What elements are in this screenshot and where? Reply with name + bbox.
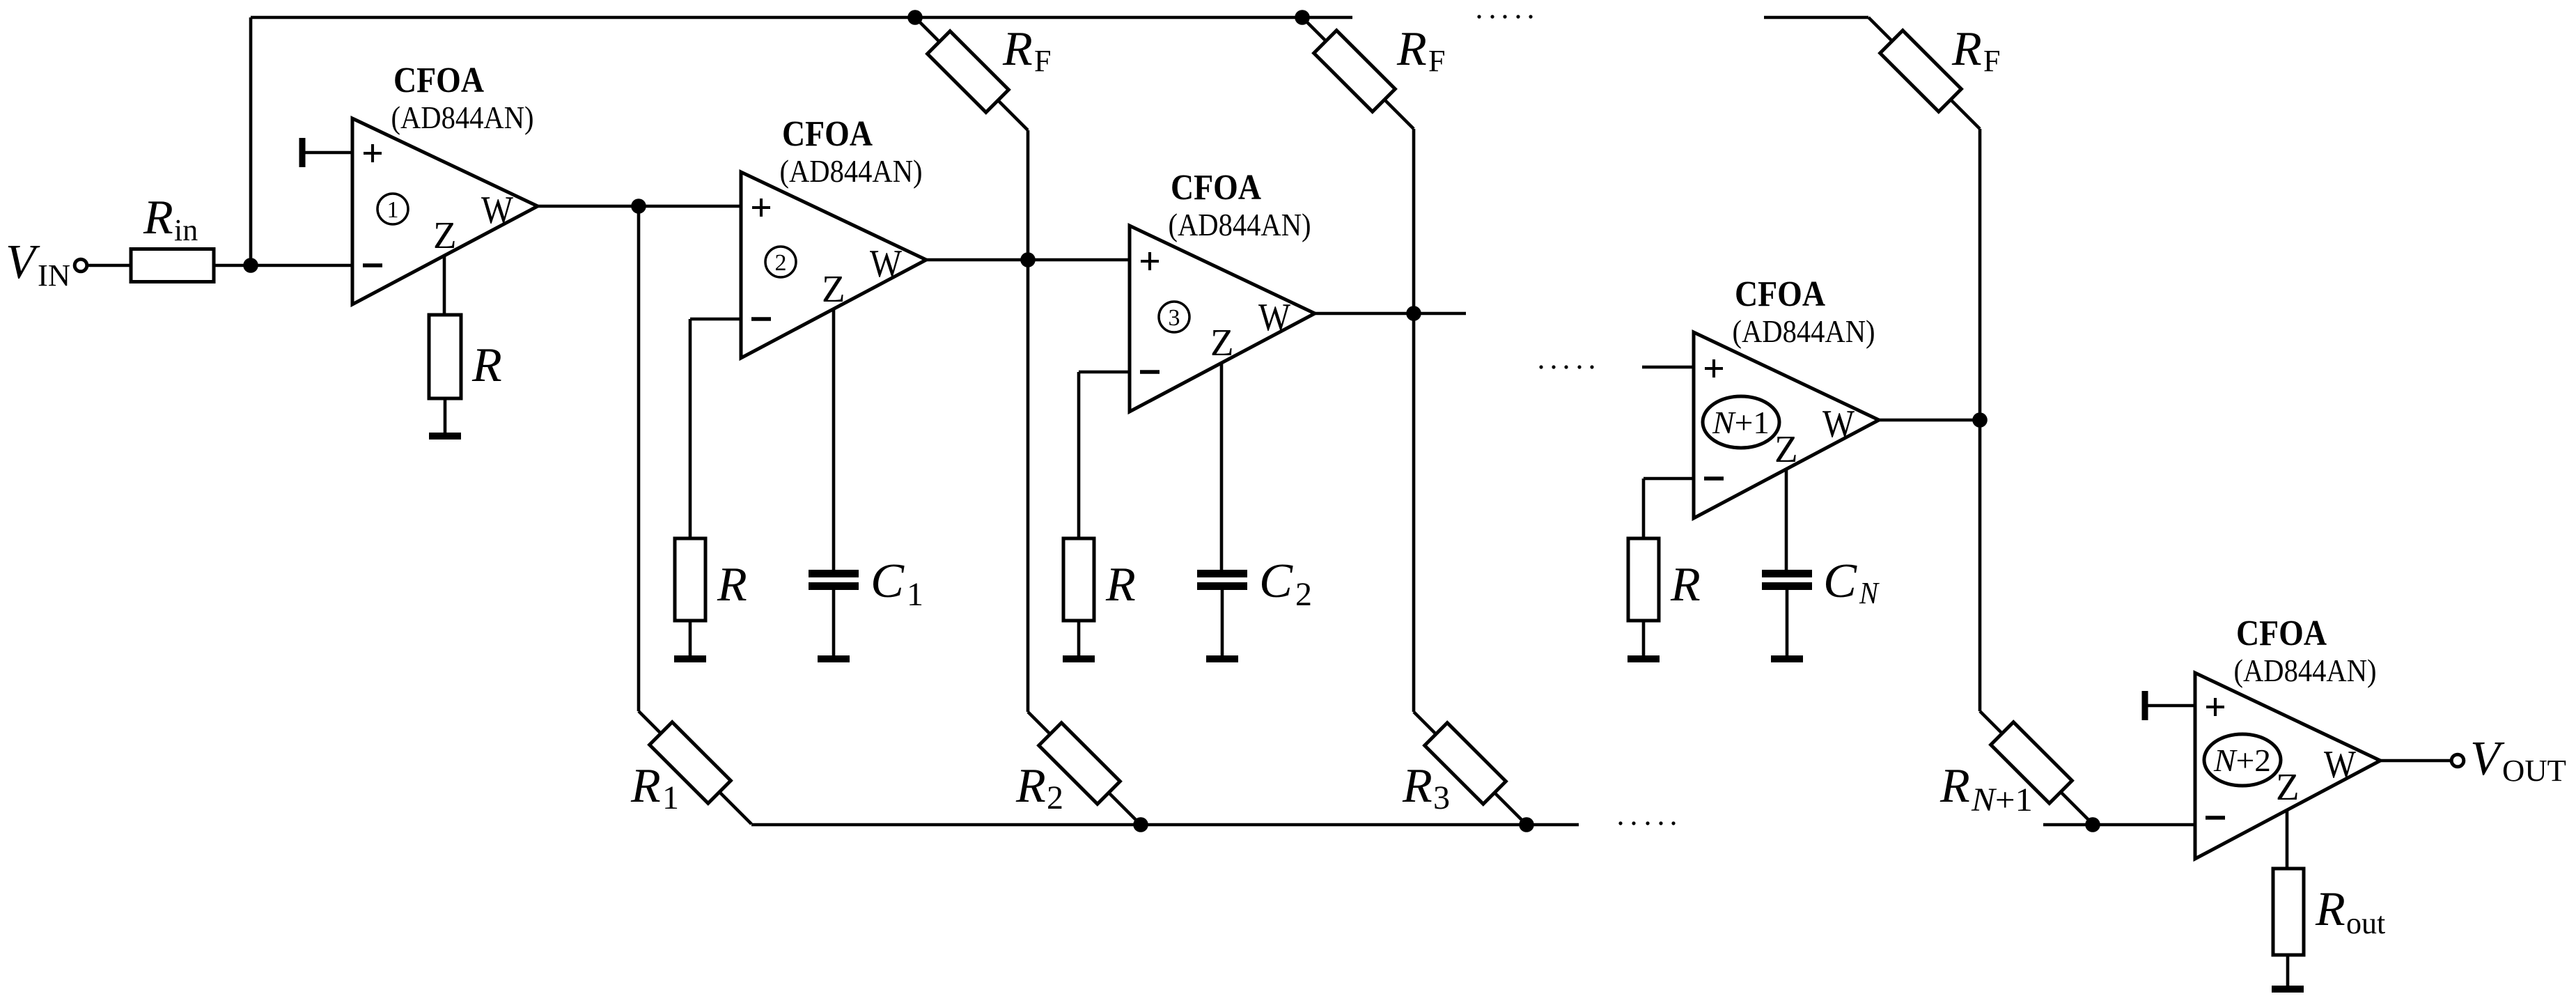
op-amp U1 (CFOA 1) triangle xyxy=(352,118,538,304)
ground of C2 xyxy=(1206,655,1238,662)
wire U2 minus input xyxy=(690,318,741,321)
ground of R U2 xyxy=(674,655,706,662)
resistor R1 (diagonal) xyxy=(650,722,731,804)
circled number 2 inside U2 xyxy=(765,247,796,277)
wire R of U1 to ground xyxy=(444,398,447,433)
resistor RF1 (diagonal) xyxy=(928,31,1009,113)
resistor RF3 (diagonal) xyxy=(1880,31,1962,112)
ground of R U4 xyxy=(1627,655,1660,662)
capacitor CN xyxy=(1762,570,1812,577)
svg-text:Z: Z xyxy=(433,214,457,256)
svg-text:R: R xyxy=(1002,22,1033,76)
resistor Rout xyxy=(2273,869,2304,955)
ellipsis dots on top bus xyxy=(1477,15,1481,18)
wire U3 Z pin down to C2 xyxy=(1220,363,1224,570)
resistor R of U3 xyxy=(1063,538,1094,621)
grounded stub on plus input of U1 (T bar) xyxy=(299,138,306,167)
svg-text:3: 3 xyxy=(1433,779,1450,816)
op-amp U5 (CFOA N+2) triangle xyxy=(2195,673,2380,859)
svg-text:R: R xyxy=(1670,558,1701,612)
svg-text:R: R xyxy=(717,558,747,612)
node A junction at VIN feedback tap xyxy=(243,258,258,273)
ground of CN xyxy=(1771,655,1803,662)
minus input glyph U5 xyxy=(2206,816,2225,820)
svg-text:Z: Z xyxy=(2276,765,2300,808)
minus input glyph U4 xyxy=(1704,476,1724,481)
wire top feedback bus xyxy=(251,16,1352,20)
ground of R U3 xyxy=(1063,655,1095,662)
resistor R of U1 xyxy=(429,315,461,398)
svg-text:W: W xyxy=(1822,403,1855,446)
capacitor C2 xyxy=(1197,570,1247,577)
wire plus stub to U1 xyxy=(305,151,352,155)
resistor RF2 (diagonal) xyxy=(1314,31,1396,112)
wire C2 to ground xyxy=(1221,590,1224,655)
circled number 3 inside U3 xyxy=(1159,302,1189,332)
node junction R3 on bottom bus xyxy=(1519,817,1534,832)
svg-text:CFOA: CFOA xyxy=(782,114,873,154)
svg-text:W: W xyxy=(870,242,902,286)
node E junction at U4 output xyxy=(1972,412,1988,428)
svg-text:3: 3 xyxy=(1169,305,1180,331)
resistor R of U2 xyxy=(675,538,705,621)
circled number 1 inside U1 xyxy=(377,194,408,224)
svg-text:W: W xyxy=(2324,743,2356,786)
wire U3 output node down to R3 xyxy=(1412,313,1416,712)
wire plus stub to U5 xyxy=(2148,704,2195,708)
svg-text:(AD844AN): (AD844AN) xyxy=(1169,207,1311,242)
svg-text:OUT: OUT xyxy=(2502,754,2566,788)
wire diagonal top bus into RF2 xyxy=(1302,17,1414,129)
wire VIN to inverting input of U1 xyxy=(88,264,352,267)
minus input glyph U2 xyxy=(751,317,771,321)
ellipse number N+2 inside U5 xyxy=(2204,734,2281,786)
svg-text:R: R xyxy=(1015,759,1046,813)
wire R of U3 to ground xyxy=(1077,621,1081,655)
plus input glyph U4 xyxy=(1705,367,1723,370)
ellipse number N+1 inside U4 xyxy=(1703,396,1779,448)
ellipsis dots on bottom bus xyxy=(1618,821,1622,825)
svg-text:1: 1 xyxy=(387,197,399,223)
svg-text:W: W xyxy=(481,189,513,232)
node junction RN+1 on bottom bus xyxy=(2085,817,2100,832)
wire node A up to top feedback bus xyxy=(249,17,253,265)
wire bottom summing bus right segment xyxy=(2043,823,2195,827)
capacitor C1 xyxy=(809,570,859,577)
ground of R U1 xyxy=(429,433,461,440)
svg-text:IN: IN xyxy=(38,258,70,293)
wire U5 Z pin down to Rout xyxy=(2286,810,2289,869)
ellipsis dots between U3 and U(N+1) xyxy=(1539,365,1543,368)
svg-text:V: V xyxy=(2470,732,2505,786)
svg-text:N+2: N+2 xyxy=(2213,742,2271,778)
wire U2 Z pin down to C1 xyxy=(832,309,836,570)
svg-text:C: C xyxy=(1823,554,1857,608)
wire diagonal into R3 xyxy=(1414,712,1527,825)
svg-text:Z: Z xyxy=(1774,428,1798,470)
wire diagonal stub into RF3 xyxy=(1868,17,1980,129)
wire RF3 down to U(N+1) output node xyxy=(1978,129,1982,420)
svg-text:R: R xyxy=(1951,22,1982,76)
wire CN to ground xyxy=(1786,590,1789,655)
svg-text:F: F xyxy=(1983,44,2000,78)
wire U1 output down to R1 xyxy=(637,206,641,711)
wire U4 minus input xyxy=(1644,477,1694,481)
node D junction at U3 output xyxy=(1406,306,1421,321)
minus input glyph U1 xyxy=(363,263,382,267)
svg-text:C: C xyxy=(1259,554,1293,608)
svg-text:Z: Z xyxy=(1210,321,1234,364)
wire U3 minus down to R xyxy=(1077,372,1081,538)
wire U3 minus input xyxy=(1079,371,1130,374)
svg-text:CFOA: CFOA xyxy=(393,61,484,100)
grounded stub on plus input of U5 (T bar) xyxy=(2142,691,2148,720)
svg-text:R: R xyxy=(1939,759,1970,813)
node VOUT output terminal (open circle) xyxy=(2451,754,2464,767)
svg-text:Z: Z xyxy=(822,267,845,310)
svg-text:2: 2 xyxy=(775,250,787,276)
op-amp U4 (CFOA N+1) triangle xyxy=(1694,332,1879,518)
wire R of U2 to ground xyxy=(689,621,692,655)
plus input glyph U2 xyxy=(752,206,770,209)
svg-text:in: in xyxy=(174,213,198,247)
wire U3 output W xyxy=(1315,312,1466,316)
resistor Rin xyxy=(131,249,214,282)
svg-text:R: R xyxy=(630,759,661,813)
svg-text:V: V xyxy=(6,235,40,289)
wire U1 output W xyxy=(538,205,741,208)
node junction R2 on bottom bus xyxy=(1133,817,1148,832)
node junction RF1 on top bus xyxy=(907,10,923,25)
wire C1 to ground xyxy=(832,590,836,655)
wire U4 output node down to RN+1 xyxy=(1978,420,1982,711)
svg-text:R: R xyxy=(2315,883,2345,936)
minus input glyph U3 xyxy=(1140,370,1160,374)
ground of C1 xyxy=(818,655,850,662)
resistor RN+1 (diagonal) xyxy=(1991,722,2072,804)
plus input glyph U3 xyxy=(1141,260,1159,263)
wire diagonal into R1 xyxy=(639,711,751,824)
wire diagonal top bus into RF1 xyxy=(915,17,1028,130)
svg-text:1: 1 xyxy=(662,779,679,816)
wire U2 output node down to R2 xyxy=(1027,260,1030,712)
wire U4 output W xyxy=(1879,419,1980,422)
svg-text:R: R xyxy=(471,339,502,392)
wire RF1 down to U2 output node xyxy=(1027,130,1030,260)
svg-text:C: C xyxy=(871,554,905,608)
svg-text:2: 2 xyxy=(1047,779,1063,816)
node VIN input terminal (open circle) xyxy=(75,259,87,272)
svg-text:2: 2 xyxy=(1295,576,1312,613)
op-amp U2 (CFOA 2) triangle xyxy=(741,172,926,358)
svg-text:CFOA: CFOA xyxy=(1735,274,1825,314)
node C junction at U2 output xyxy=(1020,252,1036,267)
svg-text:CFOA: CFOA xyxy=(1171,168,1261,208)
wire U4 Z pin down to CN xyxy=(1785,469,1788,570)
wire U1 Z pin down to R xyxy=(443,256,446,315)
svg-text:F: F xyxy=(1428,44,1445,78)
wire bottom summing bus left segment xyxy=(751,823,1579,827)
svg-text:(AD844AN): (AD844AN) xyxy=(1733,313,1875,349)
resistor R2 (diagonal) xyxy=(1039,723,1121,804)
svg-text:F: F xyxy=(1034,44,1051,78)
wire plus input lead of U(N+1) xyxy=(1642,366,1694,369)
plus input glyph U5 xyxy=(2206,706,2224,708)
resistor R of U4 xyxy=(1628,538,1659,621)
svg-text:N+1: N+1 xyxy=(1712,405,1770,440)
svg-text:(AD844AN): (AD844AN) xyxy=(780,153,923,189)
svg-text:(AD844AN): (AD844AN) xyxy=(391,100,534,135)
wire U2 minus down to R xyxy=(689,319,692,538)
node junction RF2 on top bus xyxy=(1295,10,1310,25)
op-amp U3 (CFOA 3) triangle xyxy=(1130,226,1315,412)
resistor R3 (diagonal) xyxy=(1425,723,1506,804)
wire U2 output W xyxy=(926,258,1130,262)
svg-text:N+1: N+1 xyxy=(1971,782,2033,818)
svg-text:R: R xyxy=(1402,759,1433,813)
wire RF2 down to U3 output node xyxy=(1412,129,1416,313)
svg-text:W: W xyxy=(1258,296,1290,339)
svg-text:R: R xyxy=(1105,558,1136,612)
wire R of U4 to ground xyxy=(1642,621,1646,655)
wire U4 minus down to R xyxy=(1642,479,1646,538)
svg-text:out: out xyxy=(2346,906,2385,940)
plus input glyph U1 xyxy=(364,152,382,155)
node B junction at U1 output xyxy=(631,199,646,214)
wire diagonal into RN+1 xyxy=(1980,711,2093,824)
svg-text:R: R xyxy=(143,191,173,244)
svg-text:N: N xyxy=(1859,576,1880,610)
svg-text:CFOA: CFOA xyxy=(2236,614,2327,653)
svg-text:R: R xyxy=(1396,22,1427,76)
svg-text:1: 1 xyxy=(907,576,923,613)
wire diagonal into R2 xyxy=(1028,712,1141,825)
wire Rout to ground xyxy=(2286,955,2290,986)
wire top bus stub to RF3 xyxy=(1764,16,1868,20)
ground of Rout xyxy=(2272,986,2304,993)
wire U5 output W to VOUT xyxy=(2380,759,2451,763)
svg-text:(AD844AN): (AD844AN) xyxy=(2234,653,2377,688)
